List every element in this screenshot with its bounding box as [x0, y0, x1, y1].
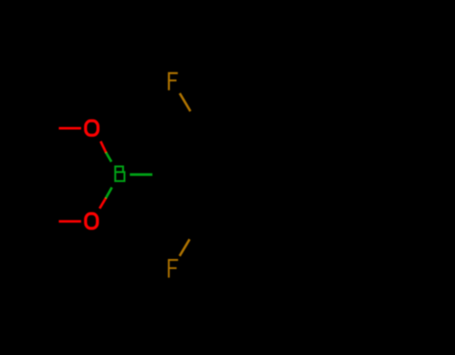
wire: bond O1 to B (green half) [106, 153, 111, 162]
wire: bond F1 to ring C2 (gold half) [180, 93, 191, 111]
wire: bond O2 to CH3 (red half) [59, 220, 81, 223]
wire: bond CH3 to O1 (red half) [59, 127, 81, 130]
wire: bond O1 to B (red half) [101, 141, 106, 152]
wire: bond F2 to ring C6 (gold half) [180, 239, 190, 256]
atom label B [114, 166, 125, 183]
atom label F2 [168, 259, 178, 278]
atom label O2 [86, 214, 98, 229]
atom label O1 [86, 121, 98, 136]
atom label F1 [168, 72, 178, 90]
wire: bond B to O2 (red half) [100, 198, 106, 208]
wire: bond B to O2 (green half) [106, 187, 112, 198]
wire: bond B to ring C1 (green half) [130, 173, 153, 176]
